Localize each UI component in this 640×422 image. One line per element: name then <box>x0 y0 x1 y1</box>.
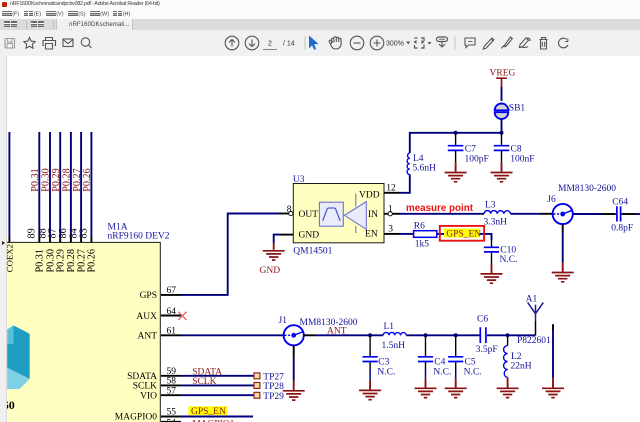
wire R6 to C10 <box>437 234 492 240</box>
tab bar <box>0 19 640 31</box>
svg-text:1: 1 <box>388 205 393 215</box>
svg-text:J1: J1 <box>279 316 288 326</box>
svg-text:MAGPIO0: MAGPIO0 <box>115 413 157 422</box>
svg-text:100pF: 100pF <box>465 155 489 165</box>
svg-text:N.C.: N.C. <box>464 368 482 378</box>
svg-text:MM8130-2600: MM8130-2600 <box>558 184 616 194</box>
wire VIO to TP29 <box>181 394 254 396</box>
svg-text:SCLK: SCLK <box>133 382 157 392</box>
svg-text:C3: C3 <box>378 358 389 368</box>
no-connect cross on AUX <box>178 312 186 320</box>
svg-text:87: 87 <box>48 228 59 238</box>
inductor L4 5.6nH <box>407 153 436 174</box>
svg-text:U3: U3 <box>293 175 305 185</box>
svg-text:58: 58 <box>167 377 177 387</box>
RF connector J1 MM8130-2600 <box>279 316 358 345</box>
svg-text:P0.31: P0.31 <box>30 168 41 192</box>
capacitor C3 N.C. <box>363 335 396 389</box>
svg-text:C10: C10 <box>500 245 516 255</box>
title bar <box>0 0 640 9</box>
ground below C10 <box>481 264 503 283</box>
svg-text:P0.26: P0.26 <box>82 168 93 192</box>
resistor R6 1k5 <box>414 222 437 250</box>
junction at C3 <box>368 333 372 337</box>
svg-text:nRF9160 DEV2: nRF9160 DEV2 <box>108 232 170 242</box>
svg-text:TP27: TP27 <box>263 372 284 382</box>
svg-text:3.5pF: 3.5pF <box>476 345 498 355</box>
wire ANT to J1 <box>181 334 284 336</box>
svg-text:VREG: VREG <box>490 69 516 79</box>
capacitor C4 N.C. <box>418 335 451 387</box>
svg-text:C4: C4 <box>434 358 445 368</box>
svg-text:12: 12 <box>386 184 396 194</box>
ground below C7 <box>445 162 467 182</box>
svg-text:3: 3 <box>388 224 393 234</box>
op-amp/LNA U3 body QM14501 <box>293 175 384 257</box>
test point TP27 <box>254 372 284 382</box>
svg-text:5.6nH: 5.6nH <box>413 164 437 174</box>
svg-text:3.3nH: 3.3nH <box>484 218 508 228</box>
wire SDATA to TP27 <box>181 375 254 377</box>
capacitor C8 100nF <box>494 134 535 165</box>
antenna A1 <box>526 295 544 336</box>
svg-text:57: 57 <box>167 387 177 397</box>
svg-text:22nH: 22nH <box>511 361 532 371</box>
inductor L2 22nH <box>504 335 532 387</box>
ground below C3 <box>359 390 381 399</box>
pin 8 OUT of U3 <box>280 205 293 216</box>
test point TP28 <box>254 382 284 392</box>
svg-text:89: 89 <box>27 228 38 238</box>
pin 1 IN of U3 <box>384 205 400 216</box>
capacitor C7 100pF <box>448 134 489 165</box>
svg-text:AUX: AUX <box>136 312 157 322</box>
ground below J6 <box>552 273 574 282</box>
pin 3 EN of U3 <box>384 224 400 234</box>
wire L1 to C6 <box>406 334 479 336</box>
svg-text:VIO: VIO <box>140 392 157 402</box>
svg-text:IN: IN <box>368 210 378 220</box>
inductor L3 3.3nH <box>484 200 511 227</box>
svg-text:GND: GND <box>260 266 281 276</box>
junction at C5 <box>454 333 458 337</box>
svg-text:P0.29: P0.29 <box>56 249 67 273</box>
pin GND of U3 <box>280 234 293 236</box>
pin 59 SDATA <box>127 367 181 382</box>
pin 57 VIO <box>140 387 181 402</box>
svg-text:L1: L1 <box>384 322 395 332</box>
junction at L2 <box>506 333 510 337</box>
svg-text:A1: A1 <box>526 295 538 305</box>
Nordic logo graphic <box>7 325 30 389</box>
ground GND near U3 <box>260 243 285 276</box>
svg-text:TP28: TP28 <box>263 382 284 392</box>
svg-text:VDD: VDD <box>359 190 380 200</box>
wire J6 to C64 <box>573 213 616 215</box>
junction at C7 <box>454 131 458 135</box>
svg-text:GPS_EN: GPS_EN <box>191 407 226 417</box>
svg-text:ANT: ANT <box>137 332 157 342</box>
pin 54 MAGPIO1 (clipped) <box>161 419 235 422</box>
wire VDD to L4 <box>400 175 410 193</box>
svg-text:GPS_EN: GPS_EN <box>446 230 481 240</box>
pin 67 GPS <box>140 286 181 301</box>
test point TP29 <box>254 392 284 402</box>
ground below antenna stub <box>542 388 564 397</box>
svg-text:SDATA: SDATA <box>127 372 157 382</box>
pin 55 MAGPIO0 <box>115 407 181 422</box>
svg-text:0.8pF: 0.8pF <box>611 223 633 233</box>
wire GPS to U3 OUT <box>181 214 280 295</box>
ground below J1 <box>283 391 305 400</box>
svg-text:N.C.: N.C. <box>500 255 518 265</box>
pin 64 AUX <box>136 307 181 322</box>
svg-text:59: 59 <box>167 367 177 377</box>
wire L3 to J6 <box>510 213 552 215</box>
wire P0.30 <box>49 132 51 242</box>
wire EN to R6 <box>400 233 414 235</box>
amplifier triangle inside U3 <box>344 194 366 234</box>
RF connector J6 MM8130-2600 <box>547 184 616 224</box>
wire J1 to L1 <box>304 334 383 336</box>
svg-text:QM14501: QM14501 <box>293 247 332 257</box>
svg-text:R6: R6 <box>414 222 425 232</box>
wire P0.31 <box>38 132 40 242</box>
net label GPS_EN highlighted <box>189 406 228 417</box>
wire VREG to SB1 <box>501 87 503 101</box>
wire SCLK to TP28 <box>181 384 254 386</box>
filter symbol inside U3 <box>319 202 343 226</box>
svg-text:55: 55 <box>167 407 177 417</box>
ground below C5 <box>445 388 467 397</box>
svg-text:P0.29: P0.29 <box>51 168 62 192</box>
wire MAGPIO0 <box>181 416 253 418</box>
wire P0.26 <box>90 132 92 242</box>
wire L4 to VREG rail <box>410 133 502 153</box>
svg-text:L4: L4 <box>413 154 424 164</box>
svg-text:C6: C6 <box>477 315 488 325</box>
wire P0.29 <box>59 132 61 242</box>
svg-text:J6: J6 <box>547 195 556 205</box>
menu bar <box>0 9 640 19</box>
svg-text:1.5nH: 1.5nH <box>382 341 406 351</box>
svg-text:N.C.: N.C. <box>377 368 395 378</box>
svg-text:GND: GND <box>299 231 320 241</box>
svg-text:C7: C7 <box>465 145 476 155</box>
pin 61 ANT <box>137 327 181 342</box>
wire U3 GND to ground <box>274 235 280 243</box>
svg-text:P0.31: P0.31 <box>35 249 46 273</box>
power port VREG <box>490 69 516 88</box>
wire IN to L3 <box>400 213 484 215</box>
svg-text:64: 64 <box>167 307 177 317</box>
svg-text:1k5: 1k5 <box>415 239 430 249</box>
wire J6 to ground <box>562 224 564 272</box>
toolbar <box>0 30 640 57</box>
svg-text:N.C.: N.C. <box>433 368 451 378</box>
svg-text:67: 67 <box>167 286 177 296</box>
svg-text:61: 61 <box>167 327 177 337</box>
junction at C4 <box>424 333 428 337</box>
capacitor C5 N.C. <box>448 335 481 387</box>
solder bridge SB1 <box>495 104 526 120</box>
antenna ground stub <box>552 324 554 387</box>
svg-text:P0.26: P0.26 <box>87 249 98 273</box>
svg-text:C8: C8 <box>511 145 522 155</box>
pin 58 SCLK <box>133 377 181 392</box>
wire J1 to ground <box>293 345 295 390</box>
inductor L1 1.5nH <box>382 322 407 351</box>
svg-text:OUT: OUT <box>299 210 319 220</box>
svg-text:GPS: GPS <box>140 291 157 301</box>
wire SB1 to rail <box>501 119 503 133</box>
svg-text:TP29: TP29 <box>263 392 284 402</box>
pin 12 VDD of U3 <box>384 184 400 194</box>
ground below C8 <box>491 162 513 182</box>
svg-text:C64: C64 <box>612 198 628 208</box>
svg-text:C5: C5 <box>465 358 476 368</box>
svg-text:measure point: measure point <box>406 203 474 214</box>
ground below L2 <box>497 388 519 397</box>
svg-text:SB1: SB1 <box>509 104 526 114</box>
svg-text:8: 8 <box>287 205 292 215</box>
capacitor C6 3.5pF <box>476 315 498 355</box>
wire P0.28 <box>70 132 72 242</box>
capacitor C10 N.C. <box>484 240 518 265</box>
svg-text:83: 83 <box>79 228 90 238</box>
svg-text:P822601: P822601 <box>517 336 551 346</box>
svg-text:100nF: 100nF <box>510 155 534 165</box>
annotation box GPS_EN <box>440 226 484 241</box>
wire COEX2 <box>8 132 10 242</box>
ground below C4 <box>415 388 437 397</box>
svg-text:EN: EN <box>365 230 378 240</box>
svg-text:L3: L3 <box>485 200 496 210</box>
wire C64 to edge <box>622 213 640 215</box>
capacitor C64 0.8pF <box>611 198 633 234</box>
junction at C8/SB1 <box>500 131 504 135</box>
wire P0.27 <box>80 132 82 242</box>
wire C6 to L2/antenna <box>487 334 536 336</box>
IC M1A nRF9160 DEV2 body <box>0 242 160 422</box>
